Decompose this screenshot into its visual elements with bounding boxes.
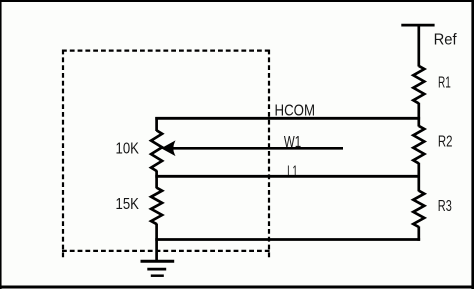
svg-text:Ref: Ref bbox=[434, 32, 458, 49]
wire HCOM rail bbox=[155, 117, 420, 120]
wire bottom rail bbox=[155, 238, 420, 241]
dashed enclosure box bbox=[62, 50, 270, 258]
svg-text:10K: 10K bbox=[116, 141, 140, 158]
resistor 15K bbox=[151, 188, 162, 224]
wire Ref bar to R1 bbox=[417, 25, 420, 66]
svg-text:R1: R1 bbox=[438, 75, 451, 92]
wire pot to 15K bbox=[155, 170, 158, 188]
node Ref terminal bar bbox=[401, 24, 434, 27]
wire R1 to R2 bbox=[417, 103, 420, 127]
wire R3 to bottom rail bbox=[417, 226, 420, 240]
potentiometer 10K element bbox=[151, 130, 162, 171]
wire 15K to ground bbox=[155, 224, 158, 261]
resistor R3 bbox=[413, 191, 424, 227]
wire pot top lead bbox=[155, 117, 158, 131]
wire L1 rail bbox=[155, 175, 419, 178]
wire R2 to R3 bbox=[417, 163, 420, 192]
svg-text:15K: 15K bbox=[116, 196, 140, 213]
svg-text:R3: R3 bbox=[438, 198, 452, 215]
wiper arrow W1 bbox=[162, 142, 343, 155]
ground bbox=[141, 261, 175, 276]
resistor R2 bbox=[413, 126, 424, 163]
resistor R1 bbox=[413, 66, 424, 104]
svg-text:W1: W1 bbox=[284, 134, 301, 151]
svg-text:HCOM: HCOM bbox=[275, 103, 316, 120]
svg-text:L1: L1 bbox=[287, 163, 298, 180]
svg-text:R2: R2 bbox=[438, 134, 453, 151]
